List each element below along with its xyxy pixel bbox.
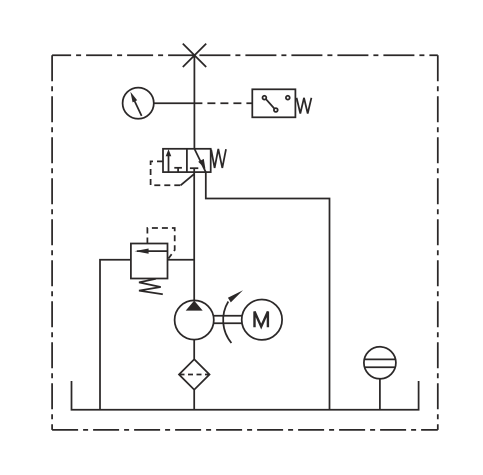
wire: level indicator to tank bbox=[379, 379, 381, 410]
wire: main pressure line (port X down to valve top) bbox=[193, 55, 195, 149]
relief valve pilot line (dashed) bbox=[147, 228, 174, 259]
pump bbox=[175, 300, 214, 339]
pressure switch contact (moving end) bbox=[274, 108, 278, 112]
drive shaft bbox=[213, 316, 241, 323]
suction filter bbox=[179, 359, 210, 389]
wire: relief valve return to tank bbox=[100, 260, 131, 410]
plugged port X (pressure outlet) bbox=[183, 44, 206, 67]
pressure switch contact (fixed, right) bbox=[286, 96, 290, 100]
unloading valve right position: blocked pump port bbox=[190, 167, 198, 169]
relief valve spring bbox=[139, 279, 163, 295]
pressure switch contact (fixed, left) bbox=[263, 96, 267, 100]
unloading valve left position: blocked port bbox=[174, 168, 182, 172]
pressure switch body bbox=[252, 89, 295, 117]
unloading valve position divider bbox=[186, 149, 188, 172]
pressure switch lever bbox=[266, 99, 274, 108]
wire: pump to filter bbox=[193, 340, 195, 360]
pressure switch spring bbox=[297, 98, 312, 114]
relief valve body bbox=[131, 244, 168, 279]
wire: main line valve to pump bbox=[193, 168, 195, 300]
wire: relief valve inlet from main line bbox=[168, 259, 195, 261]
relief valve flow arrow bbox=[135, 249, 168, 254]
pressure gauge bbox=[123, 88, 154, 119]
wire: filter to tank bbox=[193, 390, 195, 410]
unloading valve body (2-position) bbox=[163, 149, 211, 172]
unloading valve pilot tap (diagonal) bbox=[181, 174, 195, 185]
pilot line (dashed) to pressure switch bbox=[194, 102, 252, 104]
rotation direction arrow bbox=[223, 290, 243, 343]
unloading valve left position: flow arrow up bbox=[166, 149, 172, 172]
fluid level indicator bbox=[364, 347, 396, 379]
wire: gauge branch bbox=[154, 102, 195, 104]
wire: unloading return line to tank bbox=[206, 172, 330, 410]
tank (reservoir) bbox=[72, 381, 419, 410]
unloading valve pilot line (dashed) bbox=[151, 161, 181, 185]
electric motor M bbox=[242, 300, 282, 340]
unloading valve right position: diagonal flow path to tank bbox=[194, 149, 205, 172]
enclosure boundary (dash-dot power unit frame) bbox=[52, 55, 438, 430]
unloading valve spring bbox=[211, 149, 226, 168]
